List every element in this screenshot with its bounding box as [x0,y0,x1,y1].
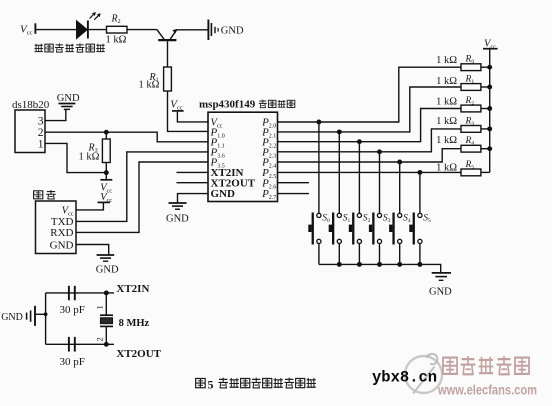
wire P2.3 to R3b [278,129,462,152]
svg-text:S5: S5 [423,214,431,225]
svg-text:8 MHz: 8 MHz [119,318,150,329]
svg-text:R1: R1 [465,74,475,85]
wire P2.5 to R5b [278,171,462,173]
power Vcc (R3 pull-up) [100,180,112,195]
svg-text:msp430f149: msp430f149 [199,98,256,110]
node crystal gnd tap [44,312,48,316]
node rail R4 [487,146,492,151]
wire bluetooth Vcc pin up to Vcc [76,202,103,210]
watermark magnifier icon [405,354,442,394]
svg-text:S1: S1 [343,214,351,225]
wire LED cathode to R2 [89,29,107,31]
ground (switch rail) [429,273,452,298]
capacitor C1 30pF [60,286,85,316]
node P2.2/S2 junction [357,139,362,144]
switch S4 [389,162,411,264]
wire bluetooth GND pin to ground [76,245,109,255]
ground (below bluetooth) [96,255,119,276]
svg-text:1 kΩ: 1 kΩ [139,80,160,91]
wire P2.1 to R1b [278,87,462,132]
svg-text:GND: GND [166,213,189,224]
wire R2 to transistor base [127,29,157,31]
caption 图5 系统整体连接电路图 [196,377,316,391]
wire XT2OUT stub [177,182,209,184]
svg-text:GND: GND [50,239,74,251]
LED D1 infrared emitting diode [77,13,101,39]
node R3/pin1 junction [104,170,109,175]
wire bluetooth TXD to P3.6 [76,152,208,222]
svg-text:RXD: RXD [50,227,73,239]
svg-text:1 kΩ: 1 kΩ [436,116,457,127]
wire P2.6 stub [278,182,310,184]
svg-text:1: 1 [38,139,44,151]
svg-text:30 pF: 30 pF [60,356,85,368]
resistor R3 [79,139,111,163]
svg-text:ybx8.cn: ybx8.cn [372,369,437,387]
switch S2 [349,142,371,265]
power Vcc (pull-up rail) [483,39,498,51]
wire Vcc to LED anode [36,29,76,31]
wire P2.2 to R2b [278,109,462,142]
transistor Q1 [157,29,177,40]
resistor R1 [139,67,172,91]
wire ds18b20 pin2 data line to P1.1 [45,132,208,142]
svg-text:1 kΩ: 1 kΩ [79,151,100,162]
wire Vcc to MSP430 Vcc pin [177,112,208,122]
IC U1 msp430f149 [199,98,295,201]
wire transistor emitter down to R1 [167,41,169,67]
svg-text:1: 1 [95,305,105,309]
IC U2 ds18b20 [15,110,45,153]
svg-text:R3: R3 [465,116,475,127]
svg-text:1 kΩ: 1 kΩ [436,76,457,87]
wire Vcc rail [489,50,491,173]
svg-text:5: 5 [208,377,214,391]
svg-text:GND: GND [57,93,80,104]
ground (below MSP430) [166,203,189,224]
wire ground to crystal net [36,313,46,315]
capacitor C2 30pF [60,337,85,368]
crystal Y1 8MHz [95,293,150,344]
svg-text:GND: GND [429,287,452,298]
svg-text:1 kΩ: 1 kΩ [106,34,127,45]
svg-text:XT2OUT: XT2OUT [116,348,161,360]
svg-text:30 pF: 30 pF [60,304,85,316]
wire P2.0 to R0 [278,67,462,122]
svg-text:1 kΩ: 1 kΩ [436,135,457,146]
IC U3 bluetooth module [36,201,77,254]
wire XT2OUT net [46,343,114,345]
resistor R5 pull-up [436,160,490,176]
wire P2.7 stub [278,193,310,195]
svg-text:S0: S0 [322,214,330,225]
node rail R3 [487,126,492,131]
svg-text:2: 2 [95,337,105,341]
node XT2IN junction [104,290,109,295]
ground (above ds18b20) [57,93,80,109]
svg-text:Vcc: Vcc [170,99,183,112]
switch S5 [409,172,431,264]
resistor R3 pull-up [436,116,490,132]
svg-text:S3: S3 [383,214,391,225]
node rail R0 [487,65,492,70]
svg-text:1 kΩ: 1 kΩ [436,55,457,66]
label 红外发射二极管 [34,43,105,52]
svg-text:2: 2 [38,127,44,139]
svg-text:R2: R2 [465,96,475,107]
svg-text:S4: S4 [403,214,411,225]
ground (crystal, sideways) [1,306,35,326]
wire ds18b20 pin3 to ground [45,110,66,121]
switch S3 [369,152,391,265]
wire bluetooth RXD to P3.5 [76,162,208,232]
svg-text:R0: R0 [465,55,475,66]
node data junction [104,130,109,135]
svg-text:S2: S2 [363,214,371,225]
node P2.3/S3 junction [377,149,382,154]
svg-text:GND: GND [1,312,23,323]
svg-text:XT2IN: XT2IN [116,283,149,295]
svg-text:GND: GND [221,26,244,37]
power Vcc (MSP430 supply) [170,99,183,112]
wire transistor to GND [177,29,208,31]
svg-text:www.elecfans.com: www.elecfans.com [437,383,537,398]
resistor R2 pull-up [436,96,490,112]
node rail S1 [337,262,342,267]
wire ds18b20 pin1 to Vcc node [45,143,104,172]
svg-text:Vcc: Vcc [20,24,33,37]
svg-text:R4: R4 [465,136,475,147]
svg-text:1 kΩ: 1 kΩ [436,96,457,107]
wire crystal left vertical [45,293,47,344]
node rail R1 [487,85,492,90]
node P2.0/S0 junction [316,120,321,125]
resistor R4 pull-up [436,135,490,152]
svg-text:Vcc: Vcc [484,39,496,51]
svg-text:1 kΩ: 1 kΩ [436,162,457,173]
node XT2OUT junction [104,342,109,347]
wire R1 to P1.0 pin [168,91,209,131]
svg-text:GND: GND [96,265,119,276]
node rail S3 [377,262,382,267]
switch S0 [308,122,330,264]
node rail S4 [397,262,402,267]
resistor R0 pull-up [436,55,490,71]
node P2.4/S4 junction [397,160,402,165]
node rail R2 [487,106,492,111]
watermark 电子发烧友 [443,356,529,374]
node rail S2 [357,262,362,267]
ground (top right, sideways) [208,20,244,41]
resistor R1 pull-up [436,74,490,90]
wire switch common rail [319,264,441,272]
switch S1 [329,132,351,265]
svg-text:GND: GND [211,188,236,200]
wire junction to R3 [105,132,107,139]
wire XT2IN net [46,292,114,294]
svg-text:R5: R5 [465,160,475,171]
svg-text:3: 3 [38,116,44,128]
power Vcc (bluetooth supply) [98,192,113,204]
label 蓝牙 [34,190,56,199]
power Vcc (top-left LED supply) [20,23,35,36]
wire R3 to Vcc node [105,163,107,180]
node rail S5 [417,262,422,267]
node P2.1/S1 junction [337,129,342,134]
svg-text:R2: R2 [111,14,121,26]
wire P2.4 to R4b [278,149,462,162]
resistor R2 [106,14,128,46]
wire MSP430 GND pin to ground [178,194,209,203]
wire XT2IN stub [177,171,209,173]
node P2.5/S5 junction [417,170,422,175]
